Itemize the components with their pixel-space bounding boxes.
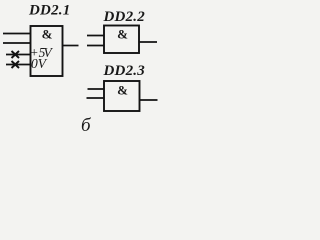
svg-text:DD2.3: DD2.3 bbox=[103, 63, 146, 79]
wire: DD2.2 output bbox=[139, 41, 157, 43]
AND gate U=DD2.1 body bbox=[31, 26, 63, 76]
svg-text:DD2.2: DD2.2 bbox=[103, 9, 146, 25]
svg-text:б: б bbox=[81, 115, 92, 135]
svg-text:&: & bbox=[117, 82, 128, 97]
svg-text:&: & bbox=[117, 26, 128, 41]
wire: DD2.3 output bbox=[140, 99, 158, 101]
AND gate U=DD2.2 body bbox=[104, 26, 139, 54]
AND gate U=DD2.3 body bbox=[104, 81, 140, 111]
svg-text:0V: 0V bbox=[31, 56, 48, 71]
wire: DD2.1 0V supply pin bbox=[6, 64, 31, 66]
wire: DD2.1 input 2 bbox=[3, 42, 31, 44]
cross (x) mark on +5V pin bbox=[12, 51, 20, 58]
svg-text:DD2.1: DD2.1 bbox=[28, 3, 70, 19]
wire: DD2.3 input 1 bbox=[88, 88, 105, 90]
wire: DD2.1 output bbox=[63, 45, 79, 47]
wire: DD2.2 input 1 bbox=[87, 35, 104, 37]
cross (x) mark on 0V pin bbox=[12, 61, 20, 68]
wire: DD2.1 input 1 bbox=[3, 33, 31, 35]
wire: DD2.2 input 2 bbox=[87, 45, 104, 47]
wire: DD2.1 +5V supply pin bbox=[6, 54, 31, 56]
svg-text:&: & bbox=[42, 26, 53, 41]
wire: DD2.3 input 2 bbox=[87, 97, 105, 99]
